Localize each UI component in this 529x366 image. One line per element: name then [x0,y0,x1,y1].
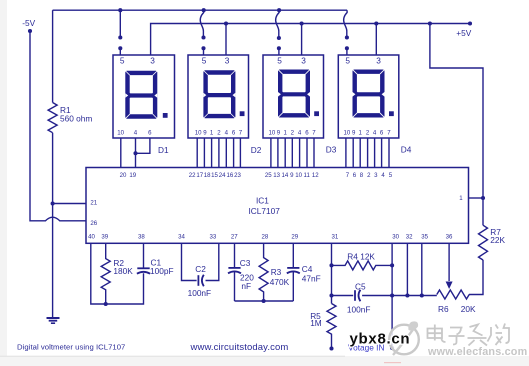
resistor R4 12K [332,261,393,270]
svg-text:nF: nF [241,281,251,291]
svg-text:14: 14 [282,172,289,179]
svg-text:C4: C4 [302,264,313,274]
node pin30/C5 junction [390,293,394,297]
svg-text:29: 29 [291,234,298,241]
svg-text:10: 10 [344,130,351,137]
node -5V terminal [28,29,32,33]
wire segment bus D2 [197,138,240,168]
svg-text:7: 7 [239,130,243,137]
resistor R3 470K [259,243,268,301]
wire D4 pin3 [375,24,377,55]
wire D3 dp lower stub [278,48,280,55]
svg-text:R3: R3 [271,267,282,277]
wire D3 dp hop [276,10,280,38]
svg-text:24: 24 [219,172,226,179]
svg-text:22K: 22K [490,235,505,245]
resistor R6 20K preset [437,290,469,299]
display D2 pin labels [195,130,243,137]
svg-text:22: 22 [189,172,196,179]
ground [47,318,60,323]
watermark chinese chars [428,324,510,346]
svg-text:9: 9 [352,130,356,137]
wire D1 pin6 jog [136,138,150,153]
red artifact dash [384,362,401,363]
node D2 dp tap on rail [202,8,206,12]
svg-text:3: 3 [301,56,306,66]
wire D1 dp lower stub [119,48,121,55]
wire pin 36 wiper arrow [448,243,450,281]
wire +5V rail (common anode) [151,24,470,55]
svg-text:5: 5 [389,172,393,179]
wire -5V vertical to pin 26 with hop [30,31,86,221]
svg-text:18: 18 [204,172,211,179]
svg-text:www.elecfans.com: www.elecfans.com [427,346,527,358]
node D1 pin4/6 junction [133,151,137,155]
svg-text:31: 31 [332,234,339,241]
display D1 [113,55,175,138]
node +5V terminal [468,21,472,25]
IC pin numbers top row [120,172,393,179]
resistor R7 22K [479,225,488,260]
resistor R5 1M [327,304,336,349]
svg-text:5: 5 [277,56,282,66]
svg-text:26: 26 [90,220,97,227]
node R2 bottom junction [104,302,108,306]
svg-text:10: 10 [295,172,302,179]
svg-text:R6: R6 [438,304,449,314]
svg-text:5: 5 [202,56,207,66]
capacitor C1 100pF [143,243,145,268]
svg-text:47nF: 47nF [302,273,321,283]
svg-text:32: 32 [406,234,413,241]
svg-text:1: 1 [459,195,463,202]
svg-text:27: 27 [231,234,238,241]
wire pin 34 down to C2 [182,243,197,280]
display D3 pin labels [269,130,317,137]
wire bottom rail C3-R3-C4 [235,300,294,302]
wire pin 31 down [331,243,333,303]
node D3 anode junction [300,21,304,25]
node R3 bottom junction [262,299,266,303]
wire pin 40 down and bottom rail [91,243,144,304]
watermark logo circle [389,321,419,355]
svg-text:+5V: +5V [456,28,471,38]
svg-text:36: 36 [446,234,453,241]
wire top rail (DP rail) [53,9,348,11]
svg-text:9: 9 [277,130,281,137]
svg-text:16: 16 [227,172,234,179]
svg-text:3: 3 [150,56,155,66]
resistor R2 180K [101,243,110,304]
wire D1 pin10 to IC20 [120,138,122,168]
node pin31/R4 junction [329,263,333,267]
svg-text:C5: C5 [355,281,366,291]
wire pin 1 [469,197,484,199]
svg-text:3: 3 [225,56,230,66]
svg-text:ybx8.cn: ybx8.cn [350,331,411,348]
svg-text:30: 30 [392,234,399,241]
wire D2 pin3 [225,24,227,55]
svg-text:17: 17 [196,172,203,179]
capacitor C3 220nF [234,243,236,268]
svg-text:35: 35 [421,234,428,241]
wire D4 dp lower stub [346,48,348,55]
svg-text:20: 20 [120,172,127,179]
svg-text:40: 40 [88,234,95,241]
svg-text:38: 38 [138,234,145,241]
display D3 [263,55,324,138]
svg-text:13: 13 [273,172,280,179]
svg-text:5: 5 [345,56,350,66]
wire C2 to pin 33 [206,243,219,280]
svg-text:15: 15 [211,172,218,179]
svg-text:180K: 180K [113,266,133,276]
wire D1 pin4 to IC19 [135,138,137,168]
wire pin 30 down [391,243,393,348]
svg-text:23: 23 [234,172,241,179]
wire +5V branch to R7/R6 [430,24,483,226]
svg-text:10: 10 [269,130,276,137]
svg-text:IC1: IC1 [256,196,269,206]
svg-text:ICL7107: ICL7107 [249,206,281,216]
svg-text:-5V: -5V [22,18,35,28]
wire D4 dp corner and hop [344,10,348,37]
svg-text:D1: D1 [158,145,169,155]
svg-text:www.circuitstoday.com: www.circuitstoday.com [190,342,289,353]
svg-text:34: 34 [178,234,185,241]
svg-text:28: 28 [262,234,269,241]
node pin21 junction [51,201,55,205]
node pin1 junction [481,196,485,200]
svg-text:9: 9 [203,130,207,137]
svg-text:560 ohm: 560 ohm [60,114,92,124]
svg-text:C2: C2 [195,264,206,274]
svg-text:33: 33 [210,234,217,241]
svg-text:19: 19 [129,172,136,179]
bottom scan strip [0,356,529,366]
IC U1 ICL7107 [86,168,469,244]
svg-text:Digital voltmeter using ICL710: Digital voltmeter using ICL7107 [17,343,125,352]
svg-text:39: 39 [101,234,108,241]
svg-text:D3: D3 [326,145,337,155]
wire pin 35 down [421,243,423,295]
svg-text:100nF: 100nF [347,305,371,315]
node R7 branch junction [428,21,432,25]
svg-text:21: 21 [90,199,97,206]
resistor R1 [48,103,57,133]
wire D2 dp hop [200,10,204,37]
capacitor C4 47nF [292,243,294,268]
node D3 dp tap on rail [277,8,281,12]
svg-text:10: 10 [195,130,202,137]
wire left vertical to ground [52,133,54,318]
left scan strip [0,0,7,356]
svg-text:470K: 470K [270,277,290,287]
svg-text:2: 2 [217,130,221,137]
node pin35 junction [420,293,424,297]
wire D3 pin3 [301,24,303,55]
svg-text:1: 1 [359,130,363,137]
svg-text:12: 12 [312,172,319,179]
node pin31/C5 junction [329,293,333,297]
wire left DP rail vertical upper [52,10,54,102]
wire D2 dp lower stub [203,48,205,55]
node D1 dp tap on rail [118,8,122,12]
node D4 anode junction [374,21,378,25]
svg-text:R4 12K: R4 12K [347,252,375,262]
svg-text:D2: D2 [251,145,262,155]
capacitor C2 100nF [197,275,199,286]
node D2 anode junction [224,21,228,25]
capacitor C5 100nF [332,295,354,297]
wire D1 dp upper [119,10,121,37]
svg-text:25: 25 [265,172,272,179]
svg-text:100pF: 100pF [150,266,174,276]
svg-text:100nF: 100nF [188,288,212,298]
wire R7 to R6 [469,260,483,295]
node pin30/R4 junction [390,263,394,267]
svg-text:D4: D4 [401,145,412,155]
node pin32 junction [405,293,409,297]
IC pin numbers bottom row [88,234,453,241]
wire pin 32 down [406,243,408,295]
svg-text:5: 5 [120,56,125,66]
svg-text:1: 1 [284,130,288,137]
wire segment bus D4 [346,138,389,168]
svg-text:20K: 20K [461,304,476,314]
svg-text:C3: C3 [240,258,251,268]
node voltage input terminal 2 [329,346,333,350]
svg-text:3: 3 [376,56,381,66]
display D4 [338,55,399,138]
wire segment bus D3 [271,138,314,168]
node voltage input terminal [390,346,394,350]
svg-text:10: 10 [117,130,124,137]
svg-text:1M: 1M [310,318,322,328]
wire pin 21 [53,203,86,205]
svg-text:11: 11 [304,172,311,179]
display D4 pin labels [344,130,392,137]
display D2 [188,55,249,138]
